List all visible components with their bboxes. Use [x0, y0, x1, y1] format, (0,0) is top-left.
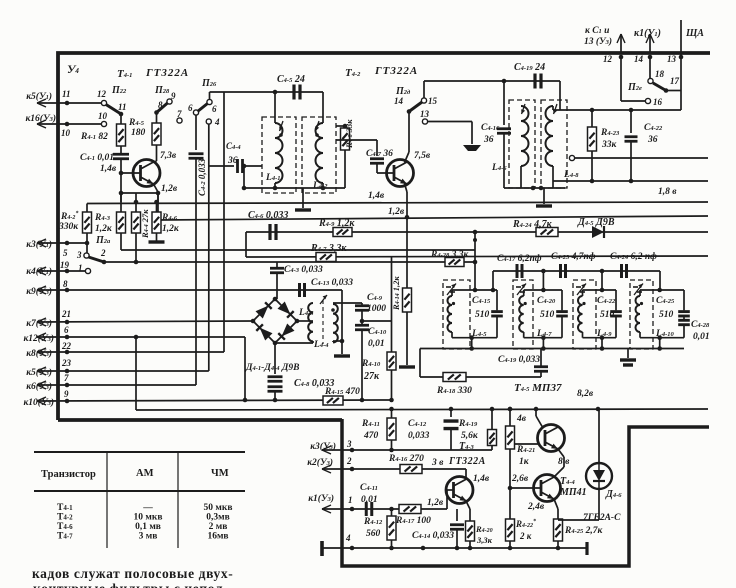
wire from contact 13	[428, 121, 473, 123]
svg-text:8,2в: 8,2в	[577, 389, 594, 399]
svg-text:2 к: 2 к	[519, 531, 532, 541]
svg-text:3 в: 3 в	[431, 458, 444, 468]
wire R4-2 bottom	[86, 233, 88, 243]
svg-text:1,2в: 1,2в	[427, 498, 444, 508]
bus y232 with R4-9 and D4-5	[246, 231, 708, 233]
wire D4-6 bottom	[598, 489, 600, 520]
resistor R4-15 470	[323, 396, 343, 405]
svg-text:L4-5: L4-5	[471, 329, 487, 339]
wire primary bottom	[312, 341, 314, 343]
svg-text:С4-9: С4-9	[367, 293, 383, 303]
switch P2a contact 3	[84, 253, 89, 258]
inductor of filter 3	[582, 290, 584, 296]
resistor R4-22* 2k	[509, 488, 511, 519]
svg-text:0,01: 0,01	[361, 495, 378, 505]
winding sense dots	[279, 133, 283, 137]
wire emitter T4-2	[405, 184, 408, 193]
wire base T4-3	[446, 490, 448, 509]
filter 3 top node wire	[583, 289, 617, 291]
wire riser x245 down	[244, 337, 246, 400]
block border U4 (lower notch: down, right, up, right)	[342, 419, 709, 566]
svg-text:Транзистор: Транзистор	[41, 469, 96, 480]
coupling row y271	[474, 232, 476, 290]
switch P2e blade	[653, 83, 666, 91]
tuning arrow in L4-2 box	[316, 121, 320, 131]
capacitor C4-19 24	[533, 74, 536, 89]
tuning arrow	[447, 284, 456, 296]
capacitor C4-23 4,7pf	[559, 264, 562, 278]
svg-text:С4-16: С4-16	[481, 123, 500, 133]
svg-text:С4-25: С4-25	[656, 296, 675, 306]
svg-text:18: 18	[655, 69, 665, 79]
svg-text:3,3к: 3,3к	[476, 535, 493, 545]
svg-text:15: 15	[428, 96, 438, 106]
capacitor C4-17 6,2pf	[516, 264, 519, 278]
capacitor C4-22 30	[630, 110, 632, 133]
resistor R4-19 5,6k	[491, 409, 493, 430]
svg-text:2,4в: 2,4в	[527, 502, 545, 512]
svg-text:13: 13	[420, 109, 430, 119]
wire	[209, 92, 211, 99]
wire	[362, 320, 392, 322]
svg-text:0,01: 0,01	[368, 339, 385, 349]
wire k6 riser	[195, 202, 197, 385]
svg-text:R4-8 33к: R4-8 33к	[344, 119, 354, 149]
svg-text:2: 2	[100, 248, 106, 258]
bus 1,8v line y181	[553, 180, 708, 182]
riser to filter 3	[601, 271, 603, 290]
capacitor C4-10 0,01	[355, 324, 369, 327]
svg-text:8: 8	[63, 279, 68, 289]
inductor L4-3 / L4-4 transformer	[297, 320, 313, 322]
svg-text:С4-19 0,033: С4-19 0,033	[498, 355, 540, 365]
junction k12/bus	[134, 335, 139, 340]
svg-text:5: 5	[63, 248, 68, 258]
wire base of T4-1	[121, 172, 141, 174]
svg-text:R4-19: R4-19	[458, 419, 478, 429]
resistor R4-28 3,3k	[445, 258, 464, 267]
svg-text:6: 6	[64, 325, 69, 335]
svg-text:17: 17	[670, 76, 680, 86]
svg-text:1,2в: 1,2в	[161, 184, 178, 194]
svg-text:0,3мв: 0,3мв	[206, 513, 229, 523]
wire emitter T4-3	[466, 501, 470, 509]
svg-text:10: 10	[61, 128, 71, 138]
svg-text:27к: 27к	[363, 371, 380, 382]
switch P2d blade	[409, 102, 422, 112]
svg-text:R4-7 3,3к: R4-7 3,3к	[310, 243, 347, 254]
svg-text:4: 4	[214, 117, 220, 127]
svg-text:510: 510	[659, 310, 674, 320]
svg-text:ГТ322А: ГТ322А	[374, 65, 418, 77]
svg-text:180: 180	[131, 128, 146, 138]
svg-text:R4-24 4,7к: R4-24 4,7к	[512, 219, 553, 230]
bus y409	[135, 337, 137, 410]
svg-text:36: 36	[483, 135, 494, 145]
resistor R4-7 3,3k	[316, 253, 336, 262]
svg-text:L4-6: L4-6	[491, 163, 507, 173]
svg-text:контурные фильтры с непо: контурные фильтры с непол-	[33, 581, 228, 588]
filter bottom rail y348.5	[420, 348, 684, 350]
svg-text:Д4-1-Д4-4 Д9В: Д4-1-Д4-4 Д9В	[245, 363, 299, 373]
capacitor C4-14 0,033	[456, 509, 458, 521]
inductor L4-8	[546, 106, 554, 166]
svg-text:7,5в: 7,5в	[414, 151, 431, 161]
svg-text:470: 470	[363, 431, 379, 441]
wire collector T4-4	[554, 467, 564, 477]
svg-text:С4-12: С4-12	[408, 419, 427, 429]
table top rule	[34, 451, 245, 453]
junction	[405, 215, 410, 220]
resistor R4-25 2,7k	[554, 519, 563, 541]
filter 4 bottom wire and tie	[640, 337, 684, 339]
wire R4-12 column	[391, 509, 393, 516]
wire collector T4-3	[465, 469, 467, 478]
IF filter section 2 dashed box	[513, 280, 533, 349]
svg-text:R4-9 1,2к: R4-9 1,2к	[318, 218, 355, 229]
filter 2 bottom wire and tie	[524, 337, 562, 339]
ground of filter rail	[627, 349, 629, 359]
svg-text:9: 9	[64, 389, 69, 399]
IF filter section 3 dashed box	[573, 280, 596, 349]
transistor T4-4 (MP41)	[534, 475, 561, 502]
svg-text:19: 19	[60, 260, 70, 270]
tuning arrow of L4-3/L4-4	[320, 295, 327, 304]
svg-text:С4-15: С4-15	[472, 296, 491, 306]
svg-text:6: 6	[212, 104, 217, 114]
svg-text:С4-13 0,033: С4-13 0,033	[311, 278, 353, 288]
svg-text:L4-8: L4-8	[563, 170, 579, 180]
svg-text:R4-6: R4-6	[161, 213, 178, 223]
svg-text:1: 1	[348, 495, 353, 505]
resistor R4-1 82	[120, 114, 122, 124]
tank capacitor of filter 4	[683, 290, 685, 310]
bus y257 with R4-7	[246, 256, 708, 257]
svg-text:к5(У1): к5(У1)	[26, 91, 52, 102]
table column separators	[106, 452, 108, 548]
svg-text:С4-20: С4-20	[537, 296, 556, 306]
wire k8 riser	[223, 92, 225, 352]
capacitor C4-28 0,01	[678, 319, 690, 322]
svg-text:С4-22: С4-22	[644, 123, 663, 133]
wire top bus P2d to C4-19	[424, 80, 560, 82]
svg-text:0,1 мв: 0,1 мв	[135, 522, 161, 532]
svg-text:12: 12	[603, 54, 613, 64]
resistor R4-2* 330k	[83, 212, 92, 233]
svg-text:1,2к: 1,2к	[95, 224, 113, 234]
resistor R4-18 330 on wire y377	[420, 376, 541, 378]
diode D4-5 D9V	[592, 226, 604, 238]
wire k5(U3) riser	[208, 124, 210, 371]
tank capacitor of filter 1	[496, 290, 498, 310]
svg-text:3: 3	[346, 439, 352, 449]
resistor R4-24 4,7k	[536, 228, 558, 237]
svg-text:11: 11	[62, 89, 71, 99]
svg-text:0,01: 0,01	[693, 332, 710, 342]
switch P2e contact 16	[645, 98, 650, 103]
tuning arrow in L4-6 box	[522, 104, 526, 114]
transistor T4-2	[387, 160, 414, 187]
tuning arrow	[517, 284, 526, 296]
junction	[541, 269, 546, 274]
wire bus to C4-5	[210, 91, 276, 93]
tuning arrow in L4-1 box	[280, 121, 284, 131]
svg-text:R4-21: R4-21	[516, 445, 535, 455]
resistor R4-8 33k	[336, 125, 345, 127]
svg-text:2: 2	[346, 456, 352, 466]
tank L4-6 dashed box	[509, 100, 535, 188]
svg-text:С4-11: С4-11	[360, 483, 378, 493]
svg-text:1к: 1к	[519, 457, 530, 467]
resistor R4-17 100	[399, 505, 421, 514]
wire C4-10 to ground rail	[361, 340, 363, 400]
svg-text:14: 14	[634, 54, 644, 64]
svg-text:10: 10	[98, 111, 108, 121]
filter 2 top node wire	[524, 289, 562, 291]
wire riser x246	[245, 232, 247, 257]
svg-text:330к: 330к	[58, 222, 79, 232]
svg-text:23: 23	[61, 358, 72, 368]
resistor R4-6 1,2k	[152, 212, 161, 233]
switch P26 blade	[198, 104, 208, 112]
svg-text:33к: 33к	[601, 140, 618, 150]
junction	[273, 90, 278, 95]
tank capacitor of filter 3	[615, 290, 617, 310]
svg-text:50 мкв: 50 мкв	[204, 503, 233, 513]
junction	[119, 112, 124, 117]
svg-text:16: 16	[653, 97, 663, 107]
svg-text:R4-17 100: R4-17 100	[395, 516, 431, 526]
capacitor C4-1 0,01	[120, 146, 122, 153]
riser R4-18 to rail	[419, 349, 421, 378]
ground	[334, 354, 350, 357]
svg-text:R4-3: R4-3	[94, 213, 111, 223]
wire	[666, 90, 681, 92]
resistor R4-12 560	[387, 516, 396, 540]
inductor of filter 1	[451, 290, 453, 296]
wire	[559, 81, 561, 110]
wire emitter of T4-1	[154, 184, 159, 192]
resistor R4-9 1,2k	[333, 228, 352, 237]
transistor T4-5 (MP37)	[538, 425, 565, 452]
resistor R4-20 3,3k	[466, 521, 475, 541]
capacitor C4-16 36	[503, 81, 505, 125]
resistor R4-10 27k	[391, 256, 393, 352]
wire R4-4 bottom	[135, 233, 137, 262]
wire secondary to C4-9cap	[333, 302, 362, 304]
svg-text:ГТ322А: ГТ322А	[448, 456, 486, 467]
resistor R4-4 27k	[132, 212, 141, 233]
bus 1,4v y202	[86, 204, 88, 213]
svg-text:R4-18 330: R4-18 330	[436, 386, 472, 396]
capacitor C4-3 0,033	[270, 267, 284, 270]
resistor R4-16 270	[400, 465, 422, 474]
inductor L4-4 secondary	[333, 304, 338, 342]
svg-text:ЩА: ЩА	[685, 28, 704, 39]
switch P28 blade	[157, 103, 168, 113]
capacitor C4-12 0,033	[450, 409, 452, 417]
svg-text:L4-2: L4-2	[312, 181, 328, 191]
capacitor C4-8 0,033 dual	[274, 343, 276, 374]
svg-text:R4-12: R4-12	[363, 517, 383, 527]
tank L4-1 dashed box	[262, 117, 296, 193]
svg-text:12: 12	[97, 89, 107, 99]
svg-text:7: 7	[64, 373, 69, 383]
wire collector T4-2	[405, 152, 410, 163]
svg-text:С4-1 0,01: С4-1 0,01	[80, 153, 114, 163]
series capacitor on y232	[268, 224, 271, 240]
junction	[243, 398, 248, 403]
capacitor C4-11 0,01	[365, 502, 368, 516]
svg-text:L4-7: L4-7	[536, 329, 552, 339]
svg-text:8 в: 8 в	[558, 457, 570, 467]
wire to contact 16	[620, 57, 622, 101]
resistor R4-23 33k	[591, 110, 593, 127]
svg-text:R4-25 2,7к: R4-25 2,7к	[564, 526, 604, 536]
capacitor C4-5 24 with top wire	[275, 91, 323, 93]
svg-text:21: 21	[61, 309, 71, 319]
resistor R4-21 1k	[509, 409, 511, 426]
svg-text:ГТ322А: ГТ322А	[145, 67, 189, 79]
svg-text:С4-22: С4-22	[597, 296, 616, 306]
svg-text:1,8 в: 1,8 в	[658, 187, 677, 197]
filter 4 top node wire	[640, 289, 684, 291]
tuning arrow in L4-8 box	[554, 104, 558, 114]
svg-text:R4-10: R4-10	[361, 359, 381, 369]
junction	[102, 260, 107, 265]
svg-text:13: 13	[667, 54, 677, 64]
svg-text:С4-8 0,033: С4-8 0,033	[294, 378, 334, 389]
tuning arrow	[577, 284, 586, 296]
svg-text:С4-10: С4-10	[368, 327, 387, 337]
wire	[423, 81, 425, 98]
svg-text:22: 22	[61, 341, 72, 351]
svg-text:L4-4: L4-4	[313, 340, 329, 350]
svg-text:R4-28 3,3к: R4-28 3,3к	[430, 250, 470, 260]
terminal circle line y158	[569, 155, 574, 160]
junction	[360, 319, 365, 324]
svg-text:1,4в: 1,4в	[100, 164, 117, 174]
svg-text:2 мв: 2 мв	[209, 522, 228, 532]
wire R4-3 bottom y250	[120, 233, 122, 250]
svg-text:к1(У1): к1(У1)	[634, 28, 661, 39]
svg-text:1,2в: 1,2в	[388, 207, 405, 217]
svg-text:Т4-7: Т4-7	[57, 532, 73, 542]
IF filter section 1 dashed box	[443, 280, 470, 349]
block border U4 (bottom-left segment)	[58, 418, 342, 422]
wire emitter T4-5	[558, 449, 564, 457]
filter 1 bottom wire and tie	[452, 337, 497, 339]
wire secondary bottom	[332, 341, 334, 342]
svg-text:2,6в: 2,6в	[511, 474, 529, 484]
ground	[463, 145, 481, 151]
riser to filter 4	[659, 271, 661, 290]
inductor L4-1	[274, 92, 276, 123]
svg-text:к С1 и: к С1 и	[585, 26, 609, 36]
svg-text:14: 14	[394, 96, 404, 106]
svg-text:11: 11	[118, 102, 127, 112]
wire collector T4-5	[536, 416, 543, 428]
filter 3 bottom wire and tie	[583, 337, 617, 339]
svg-text:С4-14 0,033: С4-14 0,033	[412, 531, 454, 541]
svg-text:С4-28: С4-28	[691, 320, 710, 330]
riser to filter 2	[542, 271, 544, 290]
svg-text:кадов служат полосовые двух: кадов служат полосовые двух-	[32, 566, 233, 581]
svg-text:Д4-5 Д9В: Д4-5 Д9В	[577, 217, 615, 228]
svg-text:560: 560	[366, 529, 381, 539]
emitter ground rail y548	[322, 547, 587, 549]
svg-text:Т4-1: Т4-1	[57, 503, 73, 513]
svg-text:АМ: АМ	[136, 468, 154, 479]
svg-text:R4-4 27к: R4-4 27к	[140, 209, 150, 239]
svg-text:R4-16 270: R4-16 270	[388, 454, 424, 464]
diode bridge D4-1..D4-4	[253, 299, 297, 343]
svg-text:L4-10: L4-10	[655, 329, 674, 339]
capacitor C4-4 36	[209, 165, 234, 167]
svg-text:3 мв: 3 мв	[139, 532, 158, 542]
tank L4-8 dashed box	[541, 100, 567, 188]
wire emitter T4-4	[554, 499, 558, 509]
svg-text:к1(У3): к1(У3)	[308, 493, 334, 504]
svg-text:R4-23: R4-23	[600, 128, 620, 138]
junction	[389, 398, 394, 403]
rail left chassis bar	[320, 541, 324, 556]
svg-text:L4-3: L4-3	[298, 308, 314, 318]
core dashed	[322, 300, 324, 344]
wire base T4-4	[510, 487, 541, 489]
svg-text:7ГЕ2А-С: 7ГЕ2А-С	[583, 513, 621, 523]
junction	[664, 88, 669, 93]
capacitor C4-9 1000	[355, 304, 369, 307]
svg-text:10 мкв: 10 мкв	[134, 513, 163, 523]
inductor L4-6	[521, 106, 529, 166]
tank L4-2 dashed box	[302, 117, 336, 193]
resistor R4-3 1,2k	[117, 212, 126, 233]
tuning arrow	[634, 284, 643, 296]
resistor R4-14 1,2k	[406, 217, 408, 288]
bridge corner junctions	[251, 319, 256, 324]
junction	[154, 110, 159, 115]
svg-text:3: 3	[76, 250, 82, 260]
wire tank bottoms	[243, 166, 245, 188]
inductor of filter 4	[639, 290, 641, 296]
filter 1 top node wire	[452, 289, 497, 291]
junction	[407, 109, 412, 114]
svg-text:4в: 4в	[516, 414, 527, 424]
svg-text:16мв: 16мв	[207, 532, 228, 542]
svg-text:36: 36	[227, 156, 238, 166]
svg-text:510: 510	[600, 310, 615, 320]
inductor L4-2	[322, 92, 324, 123]
wire	[86, 243, 88, 253]
resistor R4-5 180	[156, 113, 158, 124]
junction	[242, 164, 247, 169]
resistor R4-11 470	[391, 409, 393, 418]
svg-text:1,2к: 1,2к	[162, 224, 180, 234]
svg-text:R4-14 1,2к: R4-14 1,2к	[391, 276, 401, 311]
svg-text:МП41: МП41	[559, 487, 587, 498]
svg-text:1000: 1000	[367, 304, 386, 314]
wire	[649, 57, 651, 78]
capacitor C4-2 0,033	[195, 115, 197, 150]
svg-text:1,4в: 1,4в	[473, 474, 490, 484]
svg-text:R4-1 82: R4-1 82	[80, 132, 108, 142]
wire emitter T4-1 row	[121, 192, 158, 194]
switch P22 blade	[106, 105, 121, 115]
svg-text:L4-1: L4-1	[265, 173, 280, 183]
wire collector of T4-1	[156, 145, 158, 161]
svg-text:36: 36	[647, 135, 658, 145]
